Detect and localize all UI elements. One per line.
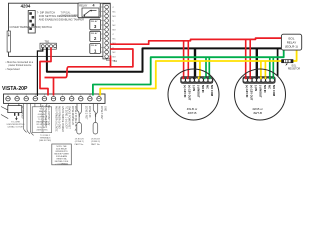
svg-text:(ZONE 3): (ZONE 3) (91, 141, 100, 143)
svg-text:RELAY: RELAY (91, 32, 98, 35)
svg-text:PART No.: PART No. (75, 143, 85, 146)
svg-text:NO: NO (113, 29, 117, 31)
svg-text:power limited source: power limited source (9, 64, 33, 67)
svg-text:BELL OUTPUT 12V: BELL OUTPUT 12V (47, 105, 49, 126)
svg-text:NO: NO (113, 56, 117, 58)
svg-text:AND ENABLING/DISABLING TAMPER: AND ENABLING/DISABLING TAMPER (39, 18, 84, 22)
svg-text:AUX POWER (+) 12VDC: AUX POWER (+) 12VDC (54, 106, 57, 132)
svg-text:NC: NC (113, 38, 117, 40)
svg-text:2: 2 (17, 95, 18, 97)
svg-text:NO IN: NO IN (201, 85, 205, 93)
svg-text:9: 9 (80, 95, 81, 97)
svg-text:TERMINALS: TERMINALS (40, 137, 52, 140)
svg-text:4: 4 (35, 95, 36, 97)
svg-text:(-) IN/OUT: (-) IN/OUT (197, 85, 201, 98)
svg-text:NC: NC (113, 52, 117, 54)
svg-text:PART No.: PART No. (91, 143, 101, 146)
svg-text:10: 10 (89, 95, 91, 97)
svg-text:4WT-B: 4WT-B (253, 111, 262, 115)
svg-text:TB1: TB1 (112, 59, 117, 63)
svg-text:SMOKE POWER RET: SMOKE POWER RET (68, 106, 70, 129)
svg-text:(+) 12V IN: (+) 12V IN (245, 85, 249, 97)
svg-text:+ 1 COMMAND: + 1 COMMAND (55, 163, 69, 166)
svg-text:RESISTOR: RESISTOR (288, 67, 300, 70)
svg-text:(+) 12V OUT: (+) 12V OUT (188, 85, 192, 101)
svg-text:NO IN: NO IN (263, 85, 267, 93)
svg-text:NO COM: NO COM (272, 85, 276, 97)
svg-text:8: 8 (71, 95, 72, 97)
svg-text:VISTA-20P: VISTA-20P (2, 86, 28, 92)
svg-text:(ZONE 2): (ZONE 2) (75, 141, 84, 143)
svg-text:NC: NC (113, 11, 117, 13)
svg-text:3: 3 (26, 95, 27, 97)
svg-text:AC TRANSFORMER 16.5V: AC TRANSFORMER 16.5V (41, 105, 44, 134)
svg-text:GND: GND (103, 106, 105, 111)
svg-text:COVER TAMPER (SW300) SWITCH: COVER TAMPER (SW300) SWITCH (10, 25, 53, 29)
svg-text:(SEE NOTES): (SEE NOTES) (39, 140, 51, 142)
svg-text:ZONE 2 IN (SEE NOTE): ZONE 2 IN (SEE NOTE) (74, 106, 76, 131)
svg-text:12VDC SMOKE POWER: 12VDC SMOKE POWER (61, 106, 63, 132)
svg-text:AC TRANSF: AC TRANSF (21, 106, 24, 120)
svg-text:7- DIP SWITCH: 7- DIP SWITCH (37, 11, 55, 15)
svg-text:NO COM: NO COM (210, 85, 214, 97)
svg-text:TO ZONE 1 (+) LOOP: TO ZONE 1 (+) LOOP (64, 106, 66, 129)
svg-text:ZONE WIRING 2K: ZONE WIRING 2K (71, 106, 73, 125)
svg-text:4204: 4204 (21, 4, 31, 9)
svg-text:• Supervised: • Supervised (6, 68, 21, 71)
svg-text:(EOLR-1): (EOLR-1) (285, 44, 298, 48)
svg-text:(-) IN: (-) IN (254, 85, 258, 91)
svg-text:RELAY: RELAY (79, 4, 87, 7)
svg-text:ZONE 3 RET: ZONE 3 RET (100, 106, 102, 120)
svg-text:NC: NC (268, 85, 272, 89)
svg-text:AUX POWER (-) GND: AUX POWER (-) GND (58, 106, 61, 129)
svg-text:NC: NC (206, 85, 210, 89)
svg-text:RELAY: RELAY (91, 20, 98, 23)
svg-text:4WT-B: 4WT-B (188, 111, 197, 115)
svg-text:(+) 12V IN: (+) 12V IN (183, 85, 187, 97)
svg-text:NO: NO (113, 16, 117, 18)
svg-text:(-) IN/OUT: (-) IN/OUT (259, 85, 263, 98)
svg-text:(-) IN: (-) IN (192, 85, 196, 91)
svg-text:2K EOLR: 2K EOLR (75, 139, 84, 141)
svg-text:(+) 12V OUT: (+) 12V OUT (250, 85, 254, 101)
svg-text:2K EOLR: 2K EOLR (91, 139, 100, 141)
svg-text:NC: NC (113, 25, 117, 27)
svg-text:ZONE 3 IN: ZONE 3 IN (88, 106, 90, 118)
svg-text:5: 5 (44, 95, 45, 97)
svg-text:(SHOWN "OFF"): (SHOWN "OFF") (61, 15, 79, 18)
svg-text:1: 1 (8, 95, 9, 97)
svg-text:ZONE 2 RET: ZONE 2 RET (85, 106, 87, 120)
svg-text:16.5VAC 25VA INPUT: 16.5VAC 25VA INPUT (44, 105, 47, 128)
svg-text:7: 7 (62, 95, 63, 97)
svg-text:4: 4 (93, 4, 95, 8)
svg-text:120VAC OUTLET: 120VAC OUTLET (7, 126, 24, 129)
svg-text:RELAY: RELAY (91, 44, 98, 47)
